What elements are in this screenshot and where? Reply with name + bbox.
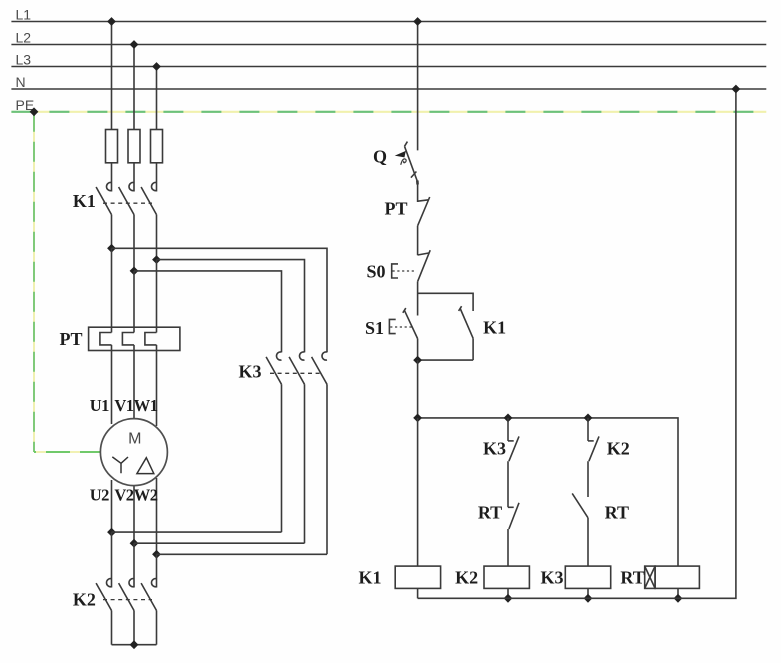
wire PT to S0 bbox=[417, 226, 419, 255]
wire phase B drop from L2 bbox=[133, 45, 135, 130]
svg-text:S1: S1 bbox=[365, 318, 384, 338]
svg-text:L1: L1 bbox=[16, 7, 32, 23]
coil K2 bbox=[484, 566, 529, 588]
wire K1 coil to bottom rail bbox=[417, 588, 419, 598]
wire K3 coil to bottom rail bbox=[587, 588, 589, 598]
wire motor V2 down bbox=[133, 486, 135, 544]
fuse F2 bbox=[128, 130, 140, 163]
wire PT to motor U1 bbox=[111, 345, 113, 424]
contactor K2 main contact pole 2 bbox=[119, 579, 134, 645]
svg-text:K2: K2 bbox=[455, 568, 478, 588]
contactor K2 main contact pole 3 bbox=[141, 579, 156, 645]
delta symbol bbox=[137, 458, 154, 474]
contactor K3 main contact pole 3 bbox=[312, 352, 327, 554]
wire phase C drop from L3 bbox=[156, 67, 158, 130]
junction top rail K3-coil branch bbox=[584, 414, 593, 423]
svg-text:K2: K2 bbox=[73, 590, 96, 610]
coil RT (timer relay) bbox=[645, 566, 700, 588]
svg-text:U2: U2 bbox=[90, 486, 109, 505]
wire delta bottom K3 pole3 to W2 bbox=[157, 553, 328, 555]
junction top rail K2-coil branch bbox=[504, 414, 513, 423]
contactor K3 main contact pole 2 bbox=[289, 352, 304, 543]
wire delta link C-top to K3 pole 2 bbox=[157, 260, 305, 353]
wire RT coil to bottom rail bbox=[677, 588, 679, 598]
wire PE drop to motor bbox=[34, 112, 100, 452]
wire delta bottom K3 pole1 to U2 bbox=[112, 531, 282, 533]
svg-text:K3: K3 bbox=[483, 439, 506, 459]
wire rail to K3 contact bbox=[507, 418, 509, 441]
coil K1 bbox=[395, 566, 440, 588]
contactor K1 main contact pole 1 bbox=[96, 183, 111, 249]
contact K3 NC (interlock) bbox=[508, 436, 519, 507]
wire control to top rail bbox=[417, 360, 419, 418]
contact RT NC (timer, delayed open) bbox=[508, 503, 519, 566]
wire K2 coil to bottom rail bbox=[507, 588, 509, 598]
K1 linkage dashed bbox=[103, 202, 152, 204]
junction node B after K1 (phase B) bbox=[130, 267, 139, 276]
svg-text:M: M bbox=[128, 430, 141, 447]
wire PT to motor V1 bbox=[133, 345, 135, 419]
svg-text:K1: K1 bbox=[358, 568, 381, 588]
wire PT to motor W1 bbox=[156, 345, 158, 426]
svg-text:K2: K2 bbox=[607, 439, 630, 459]
wire U2 to K2 bbox=[111, 532, 113, 587]
wire parallel branch top bbox=[418, 293, 474, 311]
svg-text:U1: U1 bbox=[90, 396, 109, 415]
junction node A after K1 (phase A) bbox=[107, 244, 116, 253]
wire delta bottom K3 pole2 to V2 bbox=[134, 542, 305, 544]
wire phase C to PT bbox=[156, 260, 158, 333]
junction L3 tap bbox=[152, 62, 161, 71]
junction parallel bottom bbox=[413, 356, 422, 365]
contactor K1 main contact pole 3 bbox=[141, 183, 156, 260]
bus L1 bbox=[11, 7, 766, 23]
wire phase B to PT bbox=[133, 271, 135, 333]
wire star point bar bbox=[112, 644, 157, 646]
star symbol bbox=[112, 457, 128, 473]
contactor K3 main contact pole 1 bbox=[266, 352, 281, 532]
PT heater element 3 bbox=[145, 333, 157, 345]
junction L2 tap bbox=[130, 40, 139, 49]
wire top rail bbox=[418, 418, 678, 566]
svg-text:RT: RT bbox=[478, 503, 502, 523]
wire phase A to PT bbox=[111, 248, 113, 332]
wire S0 to parallel branch bbox=[417, 282, 419, 316]
junction K2 coil bottom bbox=[504, 594, 513, 603]
svg-text:N: N bbox=[16, 74, 26, 90]
contact K1 NO (seal-in) bbox=[459, 306, 474, 360]
junction U2 bbox=[107, 528, 116, 537]
wire bottom rail to N bbox=[418, 89, 736, 598]
svg-text:RT: RT bbox=[620, 568, 644, 588]
bus N bbox=[11, 74, 766, 90]
wire V2 to K2 bbox=[133, 543, 135, 587]
svg-text:W1: W1 bbox=[134, 396, 158, 415]
svg-text:L2: L2 bbox=[16, 30, 32, 46]
wire parallel branch bottom bbox=[418, 359, 474, 361]
svg-text:V2: V2 bbox=[114, 486, 133, 505]
fuse F1 bbox=[106, 130, 118, 163]
pushbutton S1 NO (start) bbox=[389, 308, 417, 360]
junction K3 coil bottom bbox=[584, 594, 593, 603]
wire control drop from L1 bbox=[417, 22, 419, 151]
junction PE tap bbox=[30, 107, 39, 116]
svg-text:K3: K3 bbox=[540, 568, 563, 588]
K3 linkage dashed bbox=[270, 372, 321, 374]
overload relay PT box bbox=[89, 327, 180, 350]
bus L2 bbox=[11, 30, 766, 46]
wire fuse F3 to K1 bbox=[156, 163, 158, 192]
junction V2 bbox=[130, 539, 139, 548]
coil K3 bbox=[565, 566, 610, 588]
breaker Q bbox=[396, 142, 417, 185]
wire phase A drop from L1 bbox=[111, 22, 113, 130]
bus PE (green/yellow) bbox=[11, 97, 766, 113]
svg-text:PT: PT bbox=[59, 329, 82, 349]
PT heater element 2 bbox=[122, 333, 134, 345]
contact PT NC (overload trip) bbox=[418, 197, 430, 226]
svg-text:K1: K1 bbox=[483, 318, 506, 338]
wire delta link A-top to K3 pole 3 bbox=[112, 248, 328, 352]
motor M1 circle bbox=[100, 419, 167, 486]
wire fuse F2 to K1 bbox=[133, 163, 135, 192]
svg-text:S0: S0 bbox=[366, 262, 385, 282]
svg-text:W2: W2 bbox=[134, 486, 158, 505]
svg-text:RT: RT bbox=[605, 503, 629, 523]
wire fuse F1 to K1 bbox=[111, 163, 113, 192]
contactor K2 main contact pole 1 bbox=[96, 579, 111, 645]
wire delta link B-top to K3 pole 1 bbox=[134, 271, 282, 353]
junction RT coil bottom bbox=[674, 594, 683, 603]
wire rail to K1 coil bbox=[417, 418, 419, 566]
junction W2 bbox=[152, 550, 161, 559]
wire motor U2 down bbox=[111, 480, 113, 532]
svg-text:PT: PT bbox=[384, 199, 407, 219]
K2 linkage dashed bbox=[103, 599, 152, 601]
wire W2 to K2 bbox=[156, 554, 158, 587]
svg-text:K1: K1 bbox=[73, 191, 96, 211]
PT heater element 1 bbox=[100, 333, 112, 345]
junction star point bbox=[130, 640, 139, 649]
svg-text:V1: V1 bbox=[114, 396, 133, 415]
wire motor W2 down bbox=[156, 478, 158, 554]
svg-text:K3: K3 bbox=[238, 362, 261, 382]
fuse F3 bbox=[151, 130, 163, 163]
junction control tap on L1 bbox=[413, 17, 422, 26]
contact RT NO (timer, delayed close) bbox=[572, 493, 588, 566]
wire rail to K2 contact bbox=[587, 418, 589, 441]
bus L3 bbox=[11, 52, 766, 68]
svg-text:L3: L3 bbox=[16, 52, 32, 68]
junction top rail K1 branch bbox=[413, 414, 422, 423]
wire Q to PT contact bbox=[417, 182, 419, 202]
junction L1 tap bbox=[107, 17, 116, 26]
svg-text:Q: Q bbox=[373, 147, 387, 167]
contact K2 NC (interlock) bbox=[588, 436, 599, 497]
junction node C after K1 (phase C) bbox=[152, 255, 161, 264]
pushbutton S0 NC bbox=[392, 250, 431, 281]
contactor K1 main contact pole 2 bbox=[119, 183, 134, 271]
junction N tap bbox=[732, 85, 741, 94]
